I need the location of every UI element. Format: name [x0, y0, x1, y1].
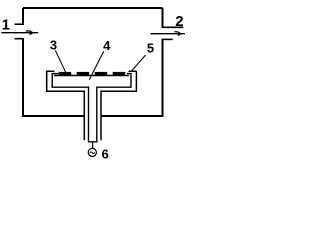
svg-text:1: 1	[2, 16, 10, 33]
svg-text:3: 3	[50, 37, 57, 52]
svg-text:4: 4	[103, 38, 111, 53]
svg-text:6: 6	[102, 147, 109, 162]
svg-text:5: 5	[147, 40, 154, 55]
svg-text:2: 2	[175, 13, 183, 30]
